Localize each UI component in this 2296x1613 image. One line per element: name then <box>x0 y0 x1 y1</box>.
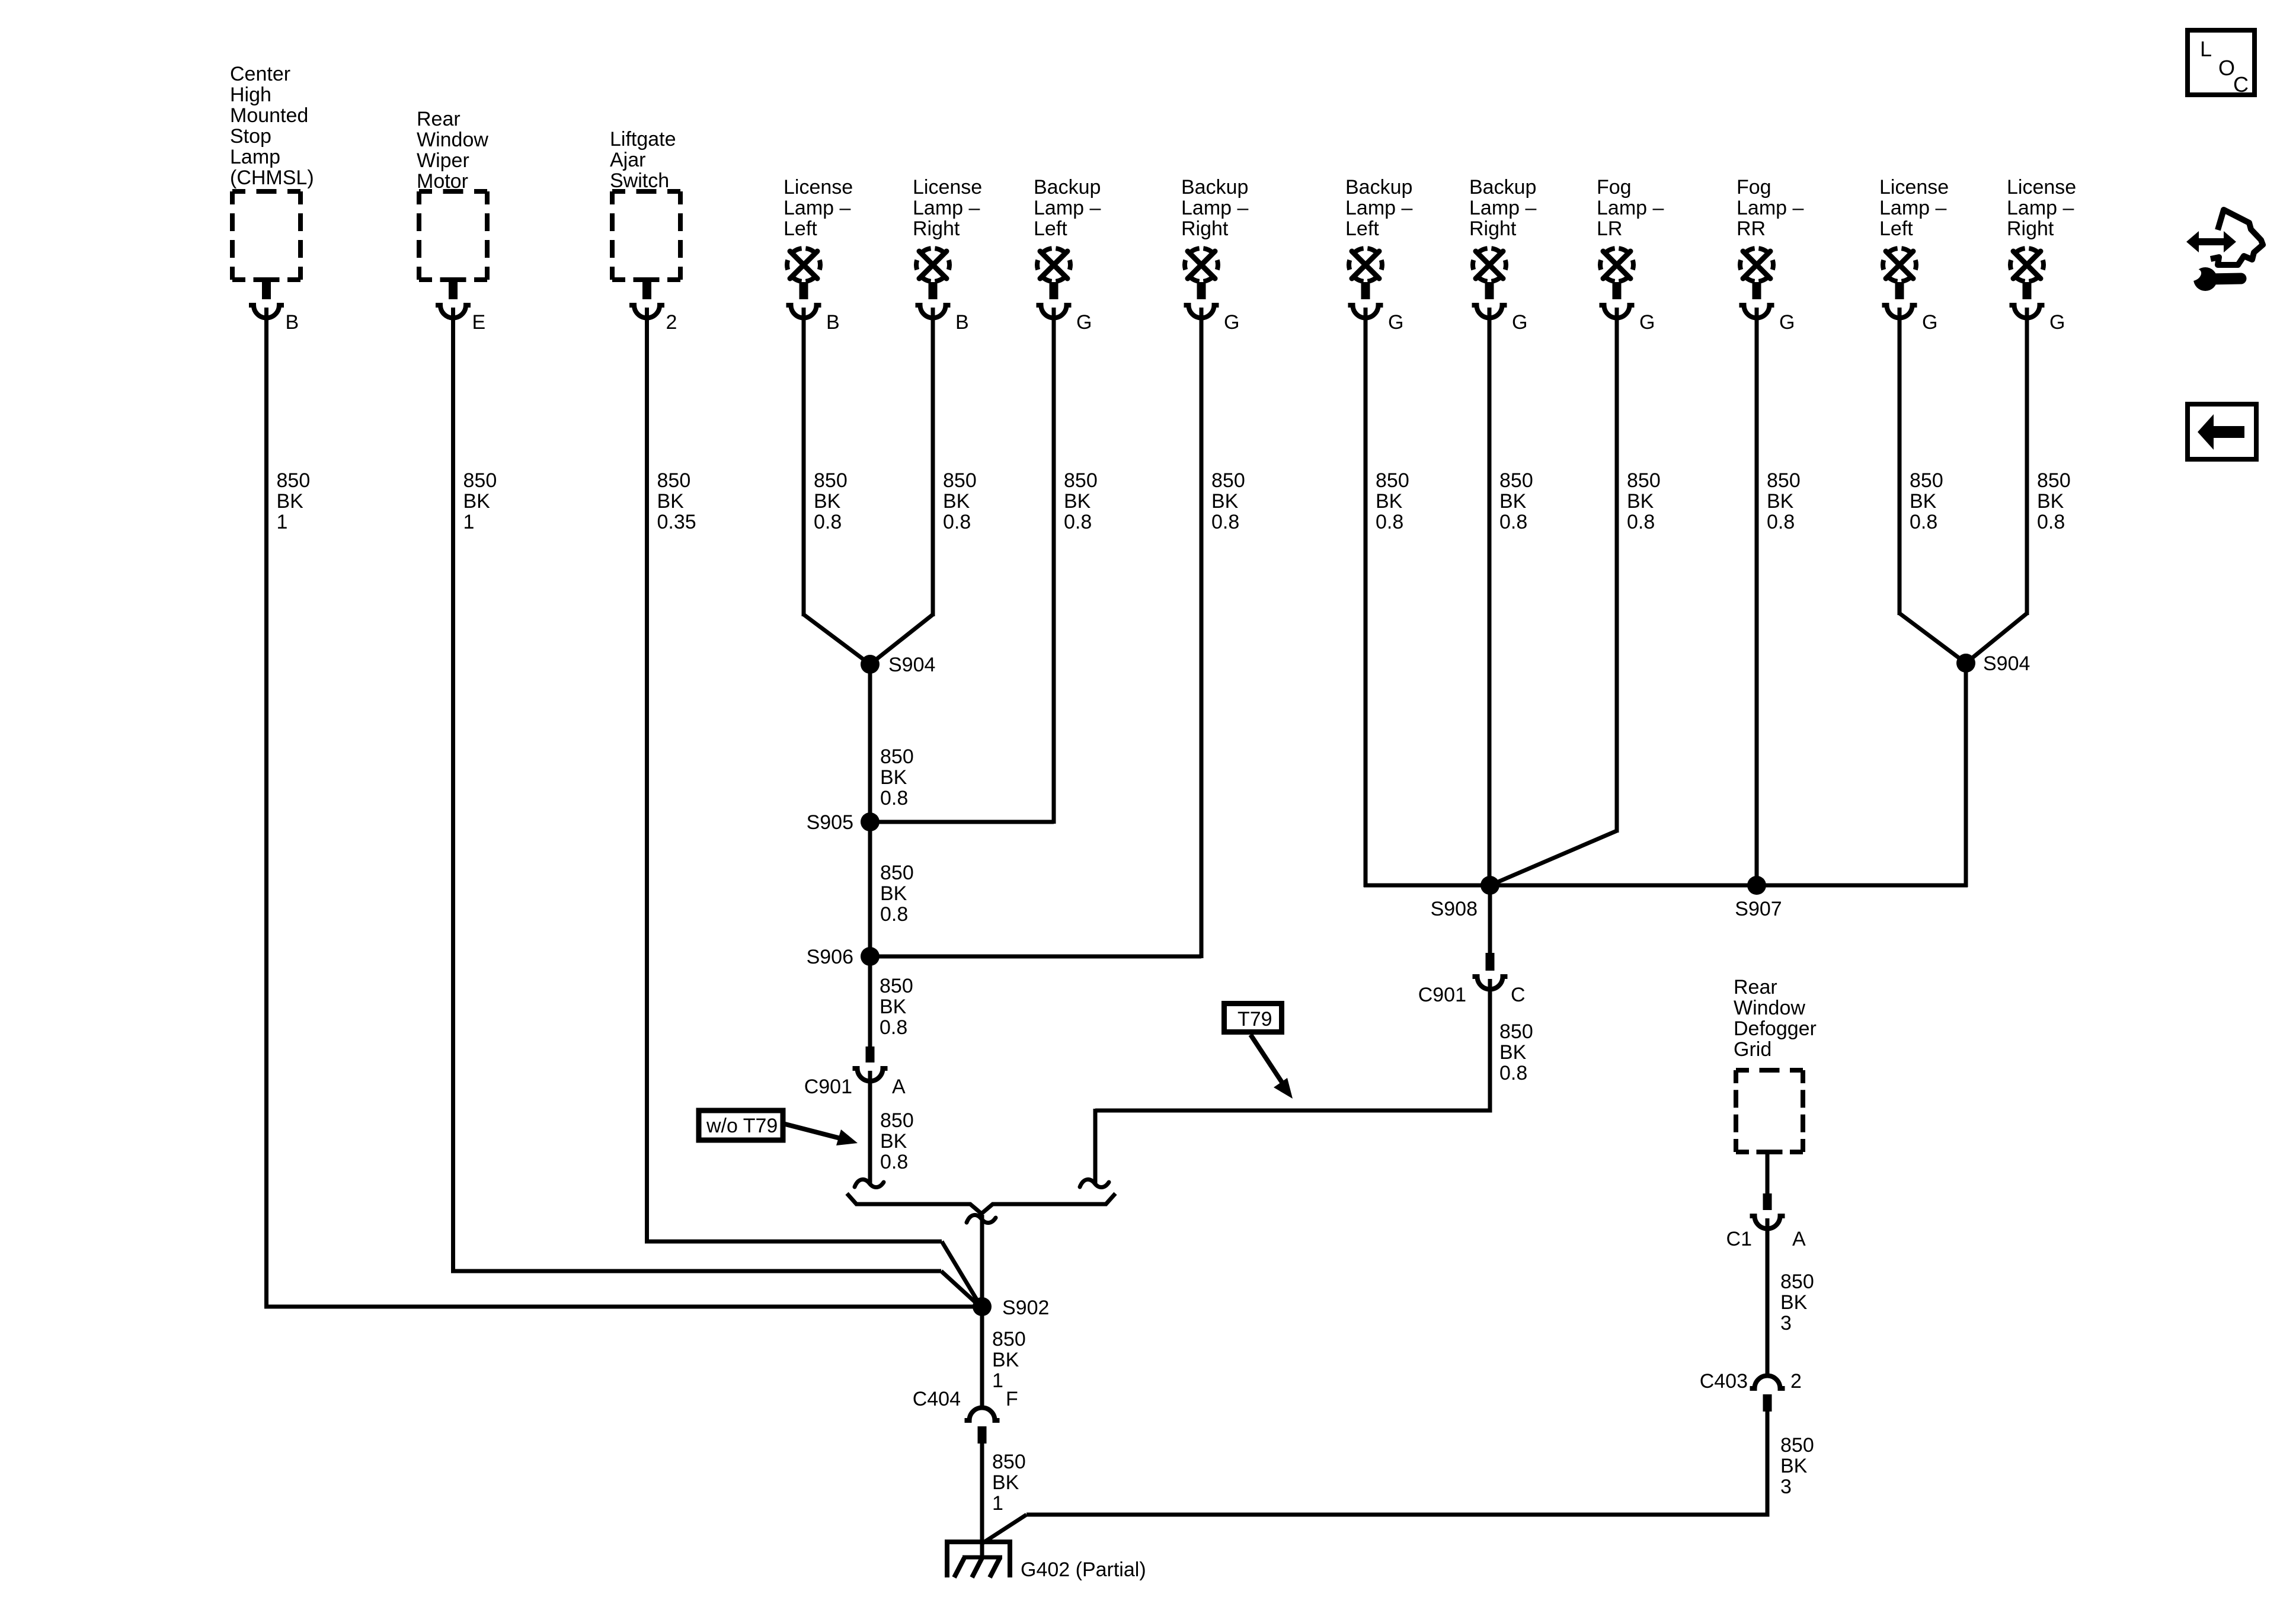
svg-text:Window: Window <box>417 129 488 151</box>
svg-text:Grid: Grid <box>1734 1038 1771 1061</box>
svg-text:Fog: Fog <box>1597 176 1632 199</box>
svg-text:Lamp –: Lamp – <box>1469 197 1536 219</box>
svg-text:C901: C901 <box>1418 984 1466 1006</box>
svg-text:Rear: Rear <box>417 108 461 130</box>
svg-text:850: 850 <box>1064 469 1098 492</box>
svg-text:1: 1 <box>463 511 475 533</box>
svg-text:G: G <box>1224 311 1239 334</box>
svg-text:(CHMSL): (CHMSL) <box>230 167 314 189</box>
svg-text:Backup: Backup <box>1469 176 1536 199</box>
svg-text:850: 850 <box>1910 469 1943 492</box>
svg-text:Lamp –: Lamp – <box>784 197 850 219</box>
svg-text:Backup: Backup <box>1034 176 1101 199</box>
svg-text:0.8: 0.8 <box>880 1016 907 1039</box>
svg-text:L: L <box>2200 37 2212 61</box>
svg-text:BK: BK <box>1767 490 1794 513</box>
svg-text:0.8: 0.8 <box>1910 511 1937 533</box>
svg-text:F: F <box>1006 1388 1018 1410</box>
svg-text:850: 850 <box>880 975 913 997</box>
svg-text:LR: LR <box>1597 217 1622 240</box>
svg-text:C901: C901 <box>804 1076 852 1098</box>
svg-text:G: G <box>1512 311 1527 334</box>
svg-text:A: A <box>892 1076 906 1098</box>
svg-text:0.8: 0.8 <box>880 1151 908 1173</box>
svg-text:850: 850 <box>1499 469 1533 492</box>
svg-text:0.8: 0.8 <box>1211 511 1239 533</box>
svg-text:Lamp: Lamp <box>230 146 280 168</box>
svg-text:850: 850 <box>1211 469 1245 492</box>
svg-text:1: 1 <box>992 1369 1003 1392</box>
svg-text:850: 850 <box>1376 469 1409 492</box>
svg-text:G: G <box>1388 311 1403 334</box>
svg-text:850: 850 <box>1780 1434 1814 1457</box>
svg-text:850: 850 <box>463 469 497 492</box>
svg-text:1: 1 <box>992 1492 1003 1515</box>
svg-text:2: 2 <box>1790 1370 1802 1393</box>
svg-text:S908: S908 <box>1431 898 1478 920</box>
svg-text:T79: T79 <box>1237 1008 1272 1030</box>
svg-text:Liftgate: Liftgate <box>610 128 676 151</box>
svg-text:BK: BK <box>1064 490 1091 513</box>
svg-text:850: 850 <box>1627 469 1661 492</box>
svg-text:S907: S907 <box>1735 898 1782 920</box>
svg-text:0.8: 0.8 <box>1499 511 1527 533</box>
svg-text:Wiper: Wiper <box>417 149 469 172</box>
svg-text:S906: S906 <box>807 946 853 968</box>
svg-text:High: High <box>230 84 271 106</box>
svg-text:850: 850 <box>992 1328 1026 1350</box>
svg-text:Lamp –: Lamp – <box>1597 197 1664 219</box>
svg-text:BK: BK <box>1780 1291 1808 1314</box>
svg-text:Lamp –: Lamp – <box>1345 197 1412 219</box>
svg-text:0.35: 0.35 <box>657 511 696 533</box>
svg-text:A: A <box>1792 1228 1806 1250</box>
svg-text:BK: BK <box>463 490 491 513</box>
svg-text:BK: BK <box>1376 490 1403 513</box>
svg-text:Ajar: Ajar <box>610 149 645 171</box>
svg-text:2: 2 <box>666 311 677 334</box>
svg-text:C404: C404 <box>913 1388 961 1410</box>
svg-text:850: 850 <box>277 469 311 492</box>
svg-text:C403: C403 <box>1700 1370 1748 1393</box>
svg-text:BK: BK <box>1211 490 1239 513</box>
svg-text:S904: S904 <box>1983 652 2030 675</box>
svg-text:C: C <box>1511 984 1526 1006</box>
svg-text:850: 850 <box>880 862 914 884</box>
svg-text:Defogger: Defogger <box>1734 1017 1817 1040</box>
svg-text:Lamp –: Lamp – <box>1879 197 1946 219</box>
svg-text:850: 850 <box>1767 469 1801 492</box>
svg-text:3: 3 <box>1780 1476 1792 1498</box>
svg-text:BK: BK <box>277 490 304 513</box>
svg-text:850: 850 <box>943 469 977 492</box>
svg-text:Fog: Fog <box>1737 176 1771 199</box>
svg-text:Stop: Stop <box>230 125 271 148</box>
svg-text:License: License <box>913 176 982 199</box>
svg-text:Backup: Backup <box>1181 176 1248 199</box>
svg-text:BK: BK <box>1780 1455 1808 1477</box>
svg-text:0.8: 0.8 <box>1767 511 1795 533</box>
svg-text:850: 850 <box>992 1451 1026 1473</box>
svg-text:License: License <box>1879 176 1949 199</box>
svg-text:0.8: 0.8 <box>943 511 971 533</box>
svg-text:O: O <box>2218 56 2235 80</box>
svg-text:Backup: Backup <box>1345 176 1412 199</box>
svg-text:Lamp –: Lamp – <box>2007 197 2074 219</box>
svg-text:BK: BK <box>657 490 685 513</box>
svg-text:G: G <box>1639 311 1655 334</box>
svg-text:Right: Right <box>913 217 960 240</box>
svg-text:BK: BK <box>880 1130 907 1153</box>
svg-text:Switch: Switch <box>610 169 669 192</box>
svg-text:Right: Right <box>1181 217 1229 240</box>
svg-text:S904: S904 <box>888 654 935 676</box>
svg-text:Left: Left <box>784 217 817 240</box>
svg-text:BK: BK <box>1627 490 1654 513</box>
svg-text:BK: BK <box>992 1471 1019 1494</box>
svg-text:Mounted: Mounted <box>230 104 308 127</box>
svg-text:G: G <box>1922 311 1937 334</box>
svg-text:License: License <box>784 176 853 199</box>
svg-text:0.8: 0.8 <box>2037 511 2065 533</box>
svg-text:C1: C1 <box>1726 1228 1752 1250</box>
svg-text:Lamp –: Lamp – <box>1737 197 1803 219</box>
svg-text:0.8: 0.8 <box>880 787 908 809</box>
svg-text:BK: BK <box>943 490 970 513</box>
svg-text:Left: Left <box>1879 217 1913 240</box>
svg-text:B: B <box>955 311 969 334</box>
svg-text:Lamp –: Lamp – <box>1181 197 1248 219</box>
svg-text:G: G <box>1779 311 1795 334</box>
svg-text:0.8: 0.8 <box>1064 511 1092 533</box>
svg-text:1: 1 <box>277 511 288 533</box>
svg-text:3: 3 <box>1780 1312 1792 1334</box>
svg-text:BK: BK <box>1499 490 1527 513</box>
svg-text:Window: Window <box>1734 997 1805 1019</box>
svg-text:E: E <box>472 311 486 334</box>
svg-text:S905: S905 <box>807 811 853 834</box>
svg-text:Rear: Rear <box>1734 976 1777 998</box>
svg-text:Lamp –: Lamp – <box>1034 197 1101 219</box>
svg-text:850: 850 <box>1780 1270 1814 1293</box>
svg-text:G: G <box>2049 311 2065 334</box>
svg-text:w/o T79: w/o T79 <box>706 1115 778 1137</box>
svg-text:Lamp –: Lamp – <box>913 197 980 219</box>
svg-text:BK: BK <box>880 766 907 789</box>
svg-text:0.8: 0.8 <box>1627 511 1655 533</box>
svg-text:BK: BK <box>880 882 907 905</box>
svg-text:0.8: 0.8 <box>1376 511 1403 533</box>
svg-text:0.8: 0.8 <box>880 903 908 926</box>
svg-text:BK: BK <box>814 490 841 513</box>
svg-text:Center: Center <box>230 63 290 85</box>
svg-text:850: 850 <box>657 469 691 492</box>
svg-text:B: B <box>286 311 299 334</box>
svg-text:BK: BK <box>992 1349 1019 1371</box>
svg-text:Right: Right <box>1469 217 1517 240</box>
svg-text:850: 850 <box>814 469 848 492</box>
svg-text:Left: Left <box>1345 217 1379 240</box>
svg-text:850: 850 <box>2037 469 2071 492</box>
svg-text:B: B <box>826 311 840 334</box>
svg-text:G: G <box>1076 311 1092 334</box>
svg-text:850: 850 <box>880 1109 914 1132</box>
svg-text:0.8: 0.8 <box>814 511 842 533</box>
svg-text:Right: Right <box>2007 217 2054 240</box>
svg-text:RR: RR <box>1737 217 1766 240</box>
svg-text:License: License <box>2007 176 2076 199</box>
svg-text:850: 850 <box>1499 1020 1533 1043</box>
svg-text:Left: Left <box>1034 217 1067 240</box>
svg-text:BK: BK <box>2037 490 2064 513</box>
svg-text:BK: BK <box>880 996 907 1018</box>
svg-text:G402 (Partial): G402 (Partial) <box>1021 1558 1146 1581</box>
svg-text:0.8: 0.8 <box>1499 1062 1527 1084</box>
svg-text:BK: BK <box>1910 490 1937 513</box>
svg-text:C: C <box>2233 72 2249 97</box>
svg-text:BK: BK <box>1499 1041 1527 1064</box>
svg-text:S902: S902 <box>1002 1297 1049 1319</box>
svg-text:850: 850 <box>880 745 914 768</box>
